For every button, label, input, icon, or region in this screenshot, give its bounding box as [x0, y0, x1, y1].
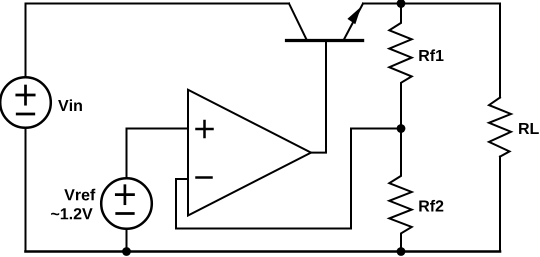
op-amp U1	[188, 90, 311, 216]
wire op-amp output to transistor base	[311, 41, 326, 153]
resistor Rf2	[389, 129, 411, 252]
wire feedback (- input down, across, up to Rf node)	[176, 129, 401, 229]
transistor Q1 emitter arrowhead	[347, 7, 361, 25]
label Rf2	[419, 200, 443, 212]
transistor Q1 collector	[289, 4, 307, 41]
wire Vref top lead to op-amp + input	[127, 129, 189, 179]
resistor RL	[489, 98, 511, 157]
wire top rail left (Vin top to transistor collector)	[26, 4, 290, 78]
label Vref	[64, 189, 95, 201]
transistor Q1 emitter	[343, 4, 363, 41]
node: Rf1/Rf2 feedback junction	[397, 124, 406, 133]
wire right rail (RL column)	[499, 4, 501, 98]
label ~1.2V	[51, 208, 92, 219]
node: Rf2 / bottom rail junction	[397, 247, 406, 256]
label Rf1	[419, 49, 443, 61]
wire top rail right (transistor emitter to RL top)	[363, 3, 500, 5]
voltage source Vin	[0, 77, 51, 128]
wire op-amp - input lead	[176, 178, 188, 180]
wire Vref bottom lead	[126, 229, 128, 252]
voltage source Vref	[101, 178, 152, 229]
resistor Rf1	[389, 4, 411, 129]
wire RL bottom lead	[499, 157, 501, 252]
node: top rail / Rf1 junction	[397, 0, 406, 8]
label RL	[519, 123, 539, 134]
transistor Q1 base bar	[287, 39, 363, 42]
wire left rail bottom (Vin bottom to bottom rail)	[25, 128, 27, 252]
wire bottom rail	[26, 250, 501, 253]
op-amp - input mark	[197, 176, 212, 179]
op-amp + input mark	[197, 121, 213, 137]
node: Vref / bottom rail junction	[122, 247, 131, 256]
label Vin	[58, 99, 82, 111]
